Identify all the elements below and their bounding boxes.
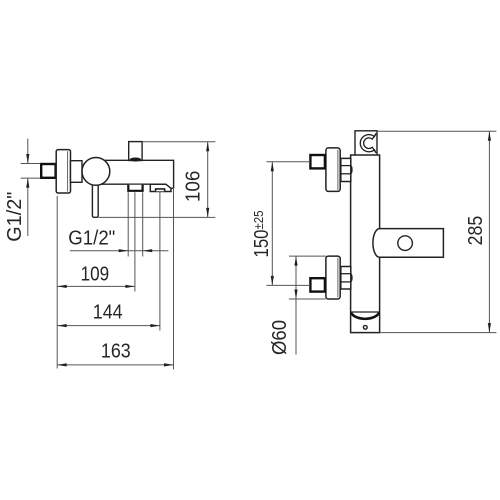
wall nipple left view (G1/2 thread) — [41, 164, 55, 178]
extension line from bracket top — [377, 130, 496, 132]
extension line top of nipple — [21, 163, 41, 165]
dimension line 106 — [207, 142, 209, 218]
extension line bottom of nipple — [21, 177, 41, 179]
bottom eccentric flange — [326, 256, 340, 299]
extension line spout outlet centre — [159, 192, 161, 331]
lever handle — [92, 178, 98, 217]
dimension line 163 — [57, 364, 173, 366]
spout left view — [150, 184, 171, 191]
separation line at bottom of column — [351, 311, 380, 313]
wall flange left view — [56, 150, 70, 193]
shower outlet connection on top of body — [129, 142, 142, 161]
svg-text:Ø60: Ø60 — [269, 320, 291, 355]
svg-text:G1/2": G1/2" — [68, 227, 115, 249]
dimension line 150±25 — [271, 162, 273, 286]
cartridge connector between flange and knob — [71, 161, 83, 183]
dimension line 109 — [57, 285, 135, 287]
bottom bowl arc — [351, 313, 379, 319]
extension line flange top — [289, 255, 326, 257]
extension line flange bottom — [289, 298, 326, 300]
spout front view — [373, 229, 443, 258]
dimension line with outside arrows — [70, 250, 168, 252]
top union nut — [341, 158, 351, 181]
bottom union nut — [341, 267, 351, 290]
shower holder C ring — [360, 133, 376, 153]
extension line bottom nipple centre — [267, 284, 311, 286]
mixer body left view — [100, 160, 174, 188]
bottom wall nipple — [310, 278, 325, 291]
spout button circle — [398, 236, 413, 251]
extension line inlet right edge — [142, 192, 144, 256]
top wall nipple — [310, 155, 325, 168]
dimension line 285 — [488, 131, 490, 332]
extension line top nipple centre — [267, 161, 311, 163]
svg-text:285: 285 — [465, 216, 487, 246]
dimension line 144 — [57, 325, 160, 327]
svg-text:106: 106 — [183, 171, 205, 203]
svg-text:109: 109 — [81, 264, 110, 286]
extension line from top of shower outlet — [143, 141, 215, 143]
small screw hole at column bottom — [363, 325, 367, 329]
inlet connection below body (G1/2) — [128, 185, 142, 191]
wall plane extension line — [56, 196, 58, 369]
extension line inlet centre — [134, 192, 136, 291]
flange highlight line — [67, 151, 69, 191]
dimension line below with up arrow — [27, 178, 29, 236]
svg-text:144: 144 — [93, 301, 123, 323]
dimension line above with down arrow — [27, 139, 29, 164]
knob circle — [82, 158, 110, 186]
extension line inlet left edge — [127, 192, 129, 256]
svg-text:163: 163 — [101, 341, 131, 363]
extension line body right edge — [173, 189, 175, 370]
body bottom edge — [100, 183, 151, 185]
extension line from column bottom — [380, 332, 497, 334]
fillet shadow at base of shower outlet — [130, 158, 142, 162]
extension line from bottom of lever — [99, 216, 216, 218]
aerator notch in spout — [156, 189, 165, 191]
shower holder bracket plate — [355, 131, 377, 155]
column body front view — [351, 155, 380, 333]
svg-text:G1/2": G1/2" — [4, 192, 26, 242]
top eccentric flange — [326, 148, 340, 192]
dimension line ø60 — [295, 256, 297, 354]
spout slant to body edge — [171, 187, 174, 189]
